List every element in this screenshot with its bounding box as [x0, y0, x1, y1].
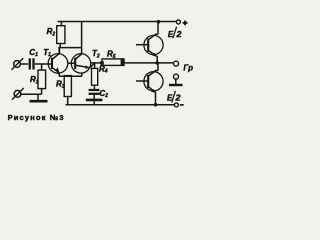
wire: T4 collector to output node	[157, 63, 159, 71]
terminal: loudspeaker jack Гр (return)	[174, 74, 179, 79]
transistor T3	[144, 34, 163, 57]
wire: C1 to T1 base	[35, 63, 52, 65]
wire: T2 bottom lead to R3 net	[81, 73, 83, 76]
capacitor C1	[30, 58, 34, 69]
transistor T2	[68, 54, 91, 73]
wire: bottom supply rail (-E/2 net)	[66, 104, 175, 106]
label: - sign	[180, 104, 184, 106]
label: E/2 (top battery)	[168, 27, 182, 39]
wire: collector bus T1/T2 under R2	[58, 47, 81, 49]
wire: T2 emitter node to R5	[90, 62, 102, 64]
label: E/2 (bottom battery)	[167, 91, 181, 103]
resistor R3	[64, 76, 71, 105]
svg-text:T2: T2	[92, 49, 100, 59]
wire: T1 emitter down	[58, 73, 60, 76]
wire: T2 collector up to rail	[81, 22, 83, 54]
junction: T4 emitter on bottom rail	[154, 103, 158, 107]
wire: T2 emitter to R4 node	[90, 63, 95, 68]
wire: emitter bus T1/T2 over R3	[59, 75, 82, 77]
ground: chassis bar	[30, 100, 48, 103]
svg-text:C1: C1	[29, 48, 38, 58]
wire: T1 collector up	[58, 47, 60, 54]
capacitor C2	[86, 90, 103, 105]
wire: top supply rail (+E/2 net)	[58, 21, 177, 23]
svg-text:2: 2	[175, 30, 182, 39]
svg-text:R2: R2	[47, 27, 56, 37]
transistor T4	[144, 70, 163, 93]
svg-text:R3: R3	[56, 80, 65, 90]
wire: T4 base stub	[136, 80, 148, 82]
label: + sign	[183, 21, 188, 26]
wire: output line R5 to loudspeaker terminal	[124, 62, 174, 64]
svg-text:Гр: Гр	[183, 63, 193, 72]
terminal: loudspeaker jack Гр (hot)	[174, 61, 179, 66]
terminal: + battery clamp	[176, 20, 180, 24]
wire: input jack to C1	[20, 63, 28, 65]
resistor R5	[100, 59, 124, 66]
svg-text:R5: R5	[107, 50, 116, 60]
wire: T4 emitter to bottom rail	[155, 92, 157, 104]
resistor R2	[57, 22, 65, 48]
wire: T3 base stub	[136, 44, 148, 46]
resistor R1	[38, 64, 46, 94]
ground: jack return stem and bar	[169, 79, 183, 85]
svg-text:T1: T1	[43, 48, 51, 58]
svg-text:C2: C2	[99, 89, 108, 99]
svg-text:2: 2	[174, 94, 181, 103]
resistor R4	[92, 63, 98, 89]
wire: T3 emitter to output node	[156, 56, 158, 63]
transistor T1	[48, 54, 68, 74]
input jack X2 (common)	[12, 88, 24, 100]
svg-text:Рисунок №3: Рисунок №3	[8, 113, 65, 122]
wire: T3 collector to top rail	[157, 22, 159, 35]
terminal: - battery clamp	[174, 103, 178, 107]
wire: jack X2 to chassis	[21, 94, 42, 100]
junction: T3 collector on top rail	[157, 20, 161, 24]
junction: T3 emitter / T4 collector on output line	[155, 61, 159, 65]
input jack X1 (hot)	[12, 58, 24, 70]
